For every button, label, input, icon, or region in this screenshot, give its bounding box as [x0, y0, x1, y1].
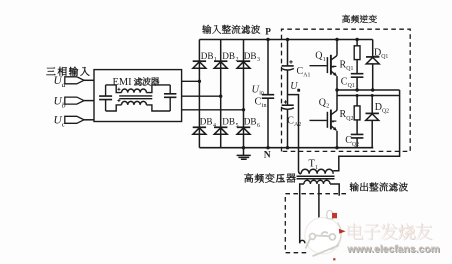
- diode DB2: [214, 60, 227, 62]
- capacitor Cin: [267, 40, 269, 148]
- label output rectifier-filter 输出整流滤波: [350, 182, 408, 191]
- wire EMI bottom rail: [106, 105, 122, 111]
- capacitor CX2 (EMI output): [169, 85, 171, 111]
- wire Uc to EMI filter: [84, 119, 94, 121]
- input connector terminal 2: [65, 97, 84, 104]
- wire capacitor midpoint to transformer: [288, 95, 299, 171]
- watermark text 电子发烧友: [349, 224, 433, 241]
- transistor Q1: [310, 65, 327, 67]
- capacitor CA2: [282, 104, 294, 106]
- label high-frequency transformer 高频变压器: [244, 173, 295, 183]
- wire phase c to leg3: [182, 109, 244, 111]
- svg-text:3: 3: [257, 57, 260, 63]
- choke core: [119, 96, 152, 99]
- resistor RQ1: [356, 40, 358, 74]
- diode DQ1: [372, 40, 374, 91]
- svg-text:1: 1: [323, 57, 326, 63]
- svg-text:DB: DB: [200, 117, 213, 127]
- svg-text:Q1: Q1: [381, 54, 388, 60]
- watermark red dot: [333, 258, 335, 260]
- transformer T1 primary winding: [299, 171, 302, 174]
- svg-text:D: D: [374, 48, 381, 59]
- output filter inductor (partially hidden): [300, 240, 318, 243]
- wire P bus: [199, 39, 372, 41]
- svg-text:EMI: EMI: [113, 77, 133, 88]
- wire Ub to EMI filter: [84, 100, 94, 102]
- svg-text:DB: DB: [201, 51, 214, 61]
- svg-text:A1: A1: [303, 72, 310, 78]
- wire Q2 emitter to N: [336, 131, 338, 148]
- ground symbol: [242, 146, 245, 149]
- svg-text:Q1: Q1: [348, 83, 355, 89]
- wire secondary center tap: [318, 184, 320, 250]
- common-mode choke L1 winding top: [122, 89, 147, 93]
- input connector terminal 1: [65, 77, 84, 84]
- wire secondary right lead: [330, 184, 339, 196]
- svg-text:A2: A2: [294, 122, 301, 128]
- diode DB1: [193, 60, 206, 62]
- diode DB6: [237, 126, 250, 128]
- svg-text:DB: DB: [244, 117, 257, 127]
- svg-text:Q2: Q2: [382, 109, 389, 115]
- svg-text:1: 1: [214, 57, 217, 63]
- svg-text:2: 2: [326, 104, 329, 110]
- wire bridge leg 2: [220, 40, 222, 148]
- diode DB4: [193, 126, 206, 128]
- wire secondary left lead: [300, 184, 304, 243]
- svg-text:1: 1: [315, 165, 318, 171]
- wire N bus: [199, 147, 373, 149]
- svg-text:C: C: [255, 97, 262, 108]
- EMI filter box: [94, 70, 182, 122]
- label input rectifier-filter 输入整流滤波: [202, 25, 260, 34]
- wire bridge leg 1: [198, 40, 200, 148]
- watermark red square: [332, 213, 337, 218]
- high-frequency inverter dashed box: [282, 29, 411, 151]
- capacitor CX1 (EMI input): [105, 85, 107, 111]
- svg-text:Q2: Q2: [346, 116, 353, 122]
- label high-frequency inverter 高频逆变: [342, 15, 377, 23]
- diode DB5: [214, 126, 227, 128]
- svg-text:D: D: [375, 102, 382, 113]
- label three-phase input 三相输入: [46, 67, 89, 76]
- svg-text:6: 6: [257, 123, 260, 129]
- wire Ua to EMI filter: [84, 79, 94, 81]
- capacitor CA1: [287, 40, 289, 66]
- wire mid rail lower: [337, 95, 400, 97]
- resistor RQ2: [356, 96, 358, 135]
- wire bridge leg 3: [243, 40, 245, 148]
- svg-text:Q2: Q2: [352, 142, 359, 148]
- wire mid node down to transformer primary right: [333, 90, 399, 171]
- polarity marks: [117, 88, 120, 102]
- svg-text:N: N: [264, 150, 271, 161]
- svg-text:DB: DB: [222, 117, 235, 127]
- common-mode choke L1 winding bottom: [122, 101, 147, 105]
- capacitor CQ2: [351, 134, 364, 138]
- transformer T1 secondary winding: [304, 180, 330, 184]
- wire Q1 emitter / Q2 collector: [336, 76, 338, 110]
- watermark logo plug prong: [327, 210, 333, 219]
- transformer core: [297, 176, 335, 179]
- transistor Q2: [310, 119, 327, 121]
- watermark red arrow: [339, 229, 346, 234]
- capacitor CQ1: [351, 74, 364, 78]
- diode DB3: [237, 60, 250, 62]
- svg-text:DB: DB: [244, 51, 257, 61]
- svg-text:DB: DB: [222, 51, 235, 61]
- wire Q1 collector to P: [336, 40, 338, 55]
- input connector terminal 3: [65, 116, 84, 123]
- svg-text:Q1: Q1: [346, 66, 353, 72]
- svg-text:2: 2: [236, 57, 239, 63]
- wire mid rail upper: [337, 89, 400, 91]
- svg-text:P: P: [265, 26, 271, 36]
- svg-text:www.elecfans.com: www.elecfans.com: [346, 244, 440, 255]
- wire phase a to leg1: [182, 80, 200, 82]
- svg-text:in: in: [262, 103, 267, 109]
- watermark logo circle: [305, 218, 341, 254]
- watermark logo plug icon: [306, 232, 339, 256]
- output rectifier-filter dashed box: [285, 194, 346, 253]
- diode DQ2: [371, 96, 373, 148]
- wire phase b to leg2: [182, 95, 221, 97]
- wire EMI top rail: [106, 85, 122, 93]
